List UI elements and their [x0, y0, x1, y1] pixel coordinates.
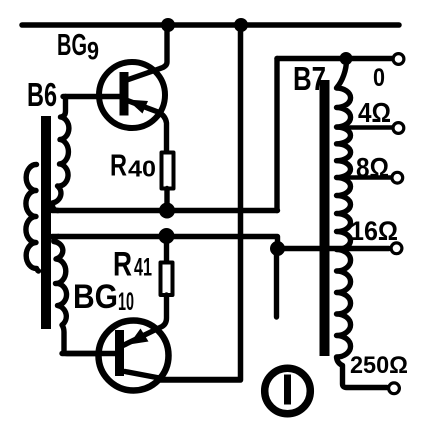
svg-text:10: 10 [118, 288, 134, 316]
svg-text:41: 41 [134, 254, 152, 282]
svg-text:250Ω: 250Ω [350, 352, 408, 379]
svg-text:R: R [110, 148, 127, 183]
svg-text:BG: BG [57, 27, 87, 62]
svg-text:B7: B7 [293, 60, 326, 97]
svg-text:B6: B6 [27, 76, 57, 113]
svg-text:16Ω: 16Ω [350, 216, 398, 246]
svg-text:4Ω: 4Ω [358, 97, 391, 128]
svg-text:BG: BG [73, 278, 118, 316]
svg-text:8Ω: 8Ω [356, 152, 389, 183]
svg-text:9: 9 [87, 38, 99, 66]
svg-text:40: 40 [128, 156, 156, 182]
svg-text:0: 0 [373, 64, 385, 92]
